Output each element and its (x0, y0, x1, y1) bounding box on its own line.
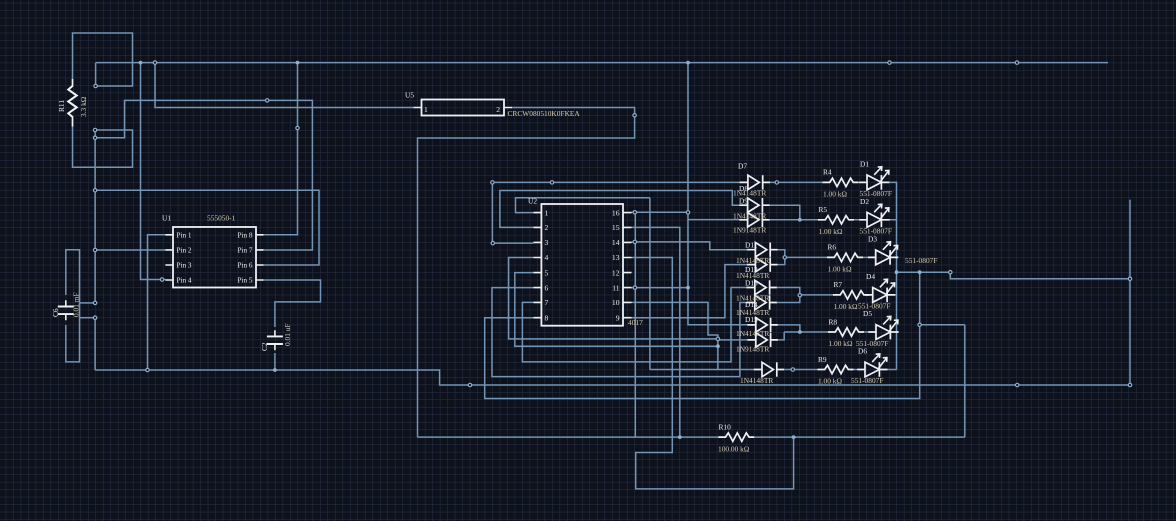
ring gndrail-1017 (1016, 383, 1019, 386)
wire right vertical x=1130 (1129, 200, 1131, 385)
ring pin3-entry (491, 241, 494, 244)
wire R10 row (418, 436, 965, 438)
wire LED rail jog to right (897, 272, 1131, 279)
wire right return x=965 (920, 325, 965, 437)
svg-text:D4: D4 (866, 272, 875, 281)
node dot row2 jog (798, 218, 802, 222)
wire U1 pin8 route (264, 63, 298, 235)
svg-text:1.00 kΩ: 1.00 kΩ (828, 264, 852, 273)
svg-text:D9: D9 (739, 197, 748, 206)
svg-text:D1: D1 (860, 160, 869, 169)
svg-text:Pin 2: Pin 2 (177, 247, 192, 255)
svg-text:Pin 1: Pin 1 (177, 231, 192, 239)
node dot row5 jog (798, 330, 802, 334)
ring U1pin4 (160, 278, 163, 281)
wire R11 bottom loop (73, 127, 133, 168)
wire C6 top (80, 302, 96, 304)
ring gndrail-1130 (1128, 383, 1131, 386)
ring VCC-x1017 (1015, 61, 1018, 64)
svg-text:551-0807F: 551-0807F (905, 256, 937, 265)
svg-text:1N4148TR: 1N4148TR (736, 329, 769, 338)
svg-text:R7: R7 (834, 280, 843, 289)
wire R11 top loop (73, 33, 133, 86)
capacitor C2 (267, 330, 283, 350)
LED D4 (865, 279, 895, 302)
diode D15 (748, 318, 778, 332)
wire D16 anode row (718, 339, 748, 341)
svg-text:3.3 kΩ: 3.3 kΩ (79, 96, 88, 117)
ring pin8-wire (296, 126, 299, 129)
wire U1 pin1 route (148, 235, 166, 370)
svg-text:Pin 6: Pin 6 (238, 262, 253, 270)
svg-text:1: 1 (545, 208, 549, 217)
svg-text:D11: D11 (745, 241, 758, 250)
svg-text:D6: D6 (858, 347, 867, 356)
svg-text:15: 15 (612, 223, 620, 232)
svg-text:1N4148TR: 1N4148TR (740, 376, 773, 385)
ring row1-D7cath (775, 181, 778, 184)
svg-text:D13: D13 (745, 279, 758, 288)
wire U1 pin4 route (141, 63, 166, 280)
svg-text:14: 14 (612, 238, 620, 247)
node dot pin11-688 (686, 286, 690, 290)
wire VCC drop x=688 (688, 63, 748, 325)
wire VCC top rail (96, 62, 1108, 64)
LED D5 (868, 316, 898, 339)
wire U5 pin1 route (155, 63, 414, 108)
ring net95-86 (94, 84, 97, 87)
svg-text:R5: R5 (819, 205, 828, 214)
svg-text:D15: D15 (745, 315, 758, 324)
wire U2 pin13 loop (632, 258, 794, 489)
ring pin1-rail (146, 368, 149, 371)
ring right-279 (1128, 277, 1131, 280)
op U2 box (541, 204, 623, 326)
wire C2 bottom (274, 353, 276, 370)
LED D2 (859, 204, 889, 227)
wire U2 pin16 down (634, 212, 636, 437)
svg-text:1.00 kΩ: 1.00 kΩ (823, 189, 847, 198)
wire U1 pin6 route (95, 190, 319, 265)
resistor R10 (718, 433, 754, 441)
svg-text:9: 9 (616, 313, 620, 322)
LED D3 (868, 242, 898, 265)
svg-text:8: 8 (545, 313, 549, 322)
wire U2 pin5 staircase (515, 273, 718, 347)
svg-text:6: 6 (545, 283, 549, 292)
wire U2 pin1 route (516, 198, 650, 213)
wire U1 pin2 route (95, 249, 165, 251)
resistor R5 (818, 216, 854, 224)
svg-text:Pin 3: Pin 3 (177, 262, 192, 270)
ring net95-318 (93, 316, 96, 319)
svg-text:D3: D3 (868, 234, 877, 243)
ring pin16 (633, 211, 636, 214)
svg-text:100.00 kΩ: 100.00 kΩ (718, 444, 750, 453)
wire U2 pin9 to D12 (632, 265, 748, 318)
wire D13-D14 cathode jog (777, 288, 800, 303)
op U1 box (173, 227, 256, 288)
diode D8 (739, 198, 769, 212)
diode D17 row6 (754, 362, 784, 376)
ring pin3-corner (491, 181, 494, 184)
node dot VCC-x688 (686, 61, 690, 65)
svg-text:C2: C2 (260, 342, 269, 351)
svg-text:CRCW080510K0FKEA: CRCW080510K0FKEA (508, 109, 581, 118)
svg-text:1.00 kΩ: 1.00 kΩ (819, 227, 843, 236)
wire U2 pin15 down (632, 227, 680, 437)
resistor R9 (818, 365, 854, 373)
svg-text:D5: D5 (863, 309, 872, 318)
diode D12 (747, 257, 777, 271)
svg-text:R8: R8 (829, 317, 838, 326)
ring net95-303 (93, 301, 96, 304)
ring jog-950 (949, 271, 952, 274)
svg-text:555050-1: 555050-1 (207, 214, 236, 223)
ring pin4-718 (716, 337, 719, 340)
ring x919-324 (918, 323, 921, 326)
wire row1 east (770, 182, 897, 369)
wire U1 pin7 route (95, 100, 312, 250)
wire GND bottom rail (95, 370, 1130, 385)
node dot R10 west (678, 435, 682, 439)
svg-text:R9: R9 (818, 355, 827, 364)
wire D8 cathode jog (770, 205, 800, 220)
svg-text:551-0807F: 551-0807F (851, 376, 883, 385)
ring gndrail-470 (468, 383, 471, 386)
svg-text:11: 11 (612, 283, 620, 292)
svg-text:16: 16 (612, 208, 620, 217)
wire U2 pin2 stub west (500, 191, 739, 228)
svg-text:0.01 uF: 0.01 uF (283, 323, 292, 346)
svg-text:Pin 7: Pin 7 (238, 247, 253, 255)
svg-text:D2: D2 (860, 197, 869, 206)
resistor R4 (823, 178, 859, 186)
ring row1-552 (550, 181, 553, 184)
svg-text:5: 5 (545, 268, 549, 277)
svg-text:1N9148TR: 1N9148TR (733, 226, 766, 235)
svg-text:1N4148TR: 1N4148TR (733, 212, 766, 221)
wire U2 pin4 staircase (509, 258, 718, 339)
diode D9 (739, 213, 769, 227)
wire row2 east (770, 219, 897, 221)
ring VCC-x155 (153, 61, 156, 64)
svg-text:R11: R11 (57, 100, 66, 112)
wire U2 pin10 down (632, 302, 718, 339)
diode D16 (748, 333, 778, 347)
svg-text:3: 3 (545, 238, 549, 247)
diode D13 (747, 280, 777, 294)
wire x=718 link (717, 339, 719, 370)
ring pin11 (633, 286, 636, 289)
diode D14 (747, 295, 777, 309)
svg-text:1: 1 (424, 105, 428, 114)
svg-text:7: 7 (545, 298, 549, 307)
wire pin1 east branch (649, 198, 651, 370)
ring net95-190 (93, 189, 96, 192)
wire U2 pin16 east (632, 211, 689, 213)
ring net95-250 (93, 248, 96, 251)
resistor R11 (68, 79, 76, 126)
wire C6 loop (66, 250, 80, 362)
capacitor C6 (58, 300, 74, 320)
node dot ledrail-272 (895, 270, 899, 274)
svg-text:Pin 8: Pin 8 (238, 231, 253, 239)
node dot VCC-x140 (139, 61, 143, 65)
LED D6 (857, 354, 887, 377)
svg-text:4: 4 (545, 253, 549, 262)
svg-text:1.00 kΩ: 1.00 kΩ (834, 302, 858, 311)
svg-text:D8: D8 (739, 184, 748, 193)
diode D11 (747, 243, 777, 257)
svg-text:1N9148TR: 1N9148TR (736, 345, 769, 354)
wire D11-D12 cathode jog (778, 250, 785, 265)
ring row4-joint (798, 294, 801, 297)
svg-text:Pin 5: Pin 5 (238, 277, 253, 285)
wire D9 row2 anode (688, 219, 740, 221)
wire node-A vertical x=95 (94, 130, 96, 303)
ring row3-joint (783, 256, 786, 259)
resistor R8 (828, 328, 864, 336)
svg-text:D7: D7 (738, 162, 747, 171)
node dot VCC-x297 (296, 61, 300, 65)
ring pin7-wire (266, 99, 269, 102)
ring row6-cath (791, 368, 794, 371)
wire U2 pin6 staircase to D14 (492, 288, 747, 377)
wire row6 anode (650, 369, 754, 371)
svg-text:C6: C6 (51, 308, 60, 317)
svg-text:U1: U1 (162, 214, 171, 223)
ring U5-return (633, 114, 636, 117)
ring net95-138 (93, 136, 96, 139)
wire row6 east (784, 369, 896, 371)
svg-text:2: 2 (545, 223, 549, 232)
wire U2 pin11 to D15 (632, 287, 689, 289)
wire U2 pin7 staircase to D13 (522, 288, 746, 362)
resistor U5 box (422, 100, 505, 116)
wire C6 bottom (80, 317, 96, 319)
svg-text:1.00 kΩ: 1.00 kΩ (829, 339, 853, 348)
svg-text:U5: U5 (405, 91, 414, 100)
svg-text:2: 2 (496, 105, 500, 114)
wire row5 east (784, 331, 898, 333)
svg-text:R10: R10 (719, 422, 732, 431)
wire row4 east (800, 294, 897, 296)
wire gnd vertical x=95 lower (94, 318, 96, 370)
svg-text:R4: R4 (823, 168, 832, 177)
label U2 pins (545, 208, 620, 322)
svg-text:10: 10 (612, 298, 620, 307)
wire U5 pin2 return (418, 108, 635, 438)
wire U2 pin14 to D11 (632, 242, 748, 250)
svg-text:13: 13 (612, 253, 620, 262)
svg-text:R6: R6 (828, 243, 837, 252)
resistor R6 (827, 253, 863, 261)
node dot ledrail-919 (918, 270, 922, 274)
wire U2 pin8 staircase (485, 272, 920, 398)
svg-text:1N4148TR: 1N4148TR (733, 188, 766, 197)
svg-text:Pin 4: Pin 4 (177, 277, 192, 285)
label U1 pins (177, 231, 253, 284)
LED D1 (859, 167, 889, 190)
ring pin16-688 (686, 211, 689, 214)
svg-text:1N4148TR: 1N4148TR (736, 256, 769, 265)
svg-text:0.01 mF: 0.01 mF (72, 292, 81, 317)
ring pin14 (633, 240, 636, 243)
ring net95-130 (93, 128, 96, 131)
wire D15-D16 cathode jog (778, 325, 800, 340)
wire U2 pin3 to row1 (492, 182, 739, 243)
svg-text:1.00 kΩ: 1.00 kΩ (818, 377, 842, 386)
node dot C2-rail (273, 368, 277, 372)
ring VCC-x890 (888, 61, 891, 64)
svg-text:4017: 4017 (628, 318, 643, 327)
diode D7 (740, 175, 770, 189)
svg-text:U2: U2 (528, 196, 537, 205)
svg-text:12: 12 (612, 268, 620, 277)
wire row3 east (785, 256, 897, 258)
wire U1 pin5 to C2 (264, 280, 321, 327)
node dot x718-pin5 (716, 344, 720, 348)
node dot R10 east (792, 435, 796, 439)
resistor R7 (833, 291, 869, 299)
